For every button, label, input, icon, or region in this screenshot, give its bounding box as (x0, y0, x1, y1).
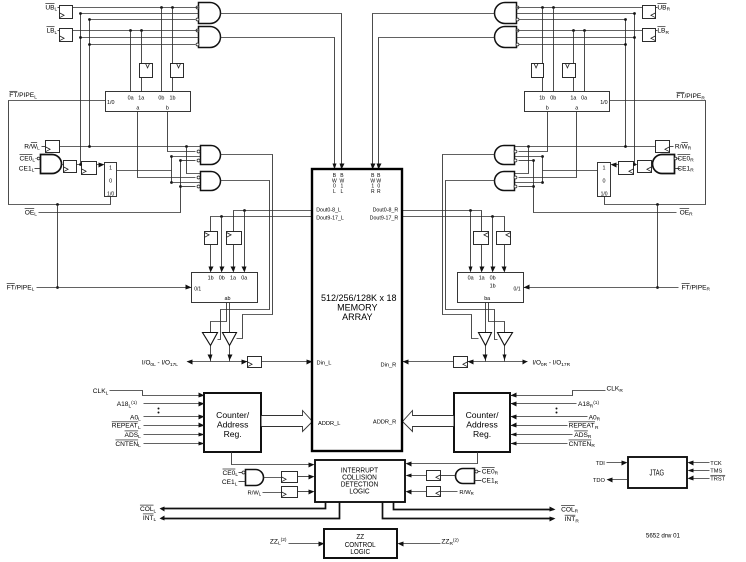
arrowhead INT_R (550, 517, 556, 522)
latch V2R (532, 64, 544, 78)
wire Dout0-8_L (234, 211, 313, 232)
overbar OE_L (25, 208, 35, 210)
svg-text:0: 0 (109, 179, 112, 185)
wire FT/PIPER top rail (605, 101, 706, 205)
junction UBR line branch 1 (552, 6, 555, 9)
block Counter/Address Reg (L) (204, 393, 261, 452)
wire R/W-L label to latch (42, 146, 46, 148)
junction select to G3R (541, 155, 544, 158)
svg-text:R/W: R/W (24, 143, 38, 150)
junction R/WL to top gates (88, 145, 91, 148)
wire G1L middle input (81, 13, 199, 15)
flip-flop UBL input cell (60, 6, 73, 19)
wire Dout9-17_L (211, 217, 313, 232)
arrowhead into select box L (99, 163, 105, 168)
arrowhead TDO (607, 478, 613, 483)
wire Dout9-17_R (403, 217, 505, 232)
wire TDO (610, 479, 628, 481)
svg-text:(1): (1) (593, 400, 599, 406)
wire ADSL (144, 434, 205, 436)
wire ZZ_R input (400, 543, 441, 545)
svg-text:0a: 0a (128, 95, 134, 101)
junction OER top corner (532, 159, 535, 162)
svg-text:ARRAY: ARRAY (342, 312, 372, 322)
wire Dout0-8_L direct to mux 0a (244, 211, 246, 271)
wire UBL cell to G1L top input (73, 7, 199, 9)
latch CE pipeline 1 R (638, 161, 652, 173)
svg-text:R/W: R/W (459, 490, 471, 496)
svg-text:R: R (595, 425, 599, 431)
latch R/W-L input (46, 141, 60, 153)
svg-text:ADS: ADS (574, 432, 588, 439)
svg-text:R: R (371, 189, 375, 195)
buffer driver2 L (tri-state) (223, 333, 237, 346)
svg-text:R: R (667, 7, 671, 13)
junction enable/G1L mid (79, 12, 82, 15)
svg-text:CE1: CE1 (222, 479, 235, 486)
overbar OE_R (680, 208, 690, 210)
svg-text:TDO: TDO (593, 478, 606, 484)
svg-text:TCK: TCK (710, 461, 722, 467)
svg-text:R: R (707, 287, 711, 293)
svg-text:L: L (34, 95, 37, 101)
arrowhead R/W R to interrupt (406, 490, 412, 495)
bus arrow ADDR_R (403, 411, 454, 432)
arrowhead 1b input L (209, 267, 214, 273)
wire CLKL (110, 391, 205, 396)
wire R/WR vertical to G4R input1 (514, 147, 529, 174)
junction FT/PIPER lower line (656, 286, 659, 289)
arrowhead BW into memory top (L0) (333, 164, 337, 170)
wire mux b output to G3R (519, 112, 548, 152)
wire select box L output (117, 170, 172, 172)
wire R/W-R latch to G3R input1 (514, 146, 656, 148)
ellipsis dot1 L (158, 408, 160, 410)
arrowhead ADSL (199, 433, 205, 437)
and-gate CE bottom L (bold) (246, 470, 264, 486)
mux byte-write select box (R) (525, 92, 610, 112)
junction rw/G2L (88, 43, 91, 46)
wire FT/PIPEL top rail (9, 101, 111, 205)
bubble G3L input4 (197, 159, 200, 162)
junction LBL line branch 1 (129, 29, 132, 32)
svg-text:REPEAT: REPEAT (112, 423, 138, 430)
svg-text:0: 0 (603, 179, 606, 185)
bubble G4R input2 (514, 176, 517, 179)
svg-text:COL: COL (561, 506, 575, 513)
junction OEL top corner (179, 159, 182, 162)
wire enable vertical to G1R/G2R middle inputs (634, 14, 636, 165)
wire G1R output to memory BW (373, 14, 495, 167)
wire LBL through V-latch to mux 1a (141, 31, 143, 92)
svg-text:FT/PIPE: FT/PIPE (676, 93, 702, 100)
svg-text:CE0: CE0 (222, 470, 235, 477)
wire CE1R bottom label (475, 480, 482, 482)
arrowhead CE R to interrupt (406, 474, 412, 478)
svg-text:L: L (55, 7, 58, 13)
junction LBL line branch 2 (140, 29, 143, 32)
junction Dout0-8_L branch (243, 209, 246, 212)
wire R/W-L latch to G3L input1 (60, 146, 201, 148)
svg-text:R: R (495, 471, 499, 477)
wire CE gate R to latches (614, 164, 653, 166)
junction R/WR to top gates (624, 145, 627, 148)
svg-text:1b: 1b (539, 95, 545, 101)
arrowhead into input register R (468, 360, 474, 365)
flip-flop LBR input cell (643, 29, 656, 42)
wire UBR direct to mux 0b (553, 8, 555, 92)
wire ab1 L to driver1 (211, 303, 227, 333)
junction R/WL to G4L (185, 145, 188, 148)
svg-text:L: L (32, 287, 35, 293)
wire OER to G4R input4 (519, 186, 534, 188)
svg-text:b: b (166, 106, 169, 112)
wire CE latch L to interrupt (298, 476, 313, 478)
svg-text:1/0: 1/0 (107, 100, 115, 106)
wire G2L bottom input (90, 44, 196, 46)
bubble G2L top input (196, 29, 199, 32)
wire counter R to interrupt logic (408, 452, 478, 464)
wire FT/PIPER rail down to lower line (657, 205, 659, 288)
register I/O input R (454, 357, 468, 368)
junction enable/G2L mid (79, 36, 82, 39)
wire ADSR (511, 434, 573, 436)
wire driver2 R to I/O bus (485, 346, 487, 362)
wire pipeline B R to mux 1a (481, 245, 483, 271)
svg-text:0a: 0a (581, 95, 587, 101)
arrowhead ZZ_R (398, 542, 404, 547)
bubble G2L bottom input (196, 43, 199, 46)
wire ab2 L to driver2 (229, 303, 231, 333)
svg-text:Dout0-8_L: Dout0-8_L (316, 207, 341, 213)
JTAG block (628, 457, 687, 488)
bubble G1R bottom input (516, 18, 519, 21)
svg-text:L: L (154, 508, 157, 514)
latch R/W bottom R (427, 487, 441, 497)
svg-text:L: L (138, 443, 141, 449)
svg-text:TRST: TRST (710, 477, 725, 483)
latch R/W-R input (656, 141, 670, 153)
block Counter/Address Reg (R) (454, 393, 510, 452)
and-gate G2L (byte-write lower) (199, 27, 221, 48)
wire CNTENR (511, 443, 568, 445)
wire LBL direct to mux 0a (130, 31, 132, 92)
junction OEL to G4L (179, 185, 182, 188)
wire COL_R output (bold) (394, 503, 554, 510)
overbar LB_R (657, 26, 665, 28)
svg-text:R: R (377, 189, 381, 195)
svg-text:0/1: 0/1 (194, 286, 201, 292)
arrowhead INT_L (160, 516, 165, 521)
svg-text:R: R (619, 388, 623, 394)
and-gate G2R (byte-write lower) (495, 27, 517, 48)
bubble G3R input4 (514, 159, 517, 162)
wire ab2 R to driver2 (485, 303, 487, 333)
junction Dout9-17_L branch (220, 215, 223, 218)
arrowhead CLKR (511, 393, 517, 398)
svg-text:5652 drw 01: 5652 drw 01 (646, 532, 681, 539)
junction CE pipeline to top gates R (633, 163, 636, 166)
arrowhead Din_L (307, 360, 313, 365)
wire pipeline B L to mux 1a (233, 245, 235, 271)
wire LB_L label dash (58, 30, 60, 32)
svg-text:L: L (341, 189, 344, 195)
wire select vertical L (171, 157, 173, 183)
svg-text:CLK: CLK (93, 388, 106, 395)
wire CE gate to latch bottom R (441, 475, 456, 477)
svg-text:CE1: CE1 (19, 165, 32, 172)
wire OEL to G3L input4 (181, 160, 196, 162)
overbar INT_R (565, 514, 576, 516)
output mux box 0/1 (R) (458, 273, 524, 303)
overbar COL_L (140, 504, 154, 506)
svg-text:L: L (138, 425, 141, 431)
ellipsis dot2 L (158, 412, 160, 414)
arrowhead A0R (511, 415, 517, 420)
ellipsis dot2 R (556, 412, 558, 414)
wire mux a output to G4R (519, 112, 577, 178)
wire LBR cell to G2R top input (517, 30, 643, 32)
wire CLKR (511, 391, 606, 396)
wire LBR through V-latch to mux 1a (573, 31, 575, 92)
svg-text:(1): (1) (131, 400, 137, 406)
and-gate G4L (output enable b) (201, 172, 221, 191)
wire input register L to Din (262, 361, 313, 363)
latch CE pipeline 2 R (619, 162, 634, 175)
arrowhead COL_L (160, 507, 165, 512)
svg-text:L: L (138, 434, 141, 440)
svg-text:R: R (690, 168, 694, 174)
overbar FT of FT/PIPE_L top (9, 90, 17, 92)
bubble CE0R input (674, 157, 677, 160)
bubble G1R top input (516, 6, 519, 9)
and-gate CE bottom R (bold) (456, 469, 475, 484)
wire Dout9-17_L direct to mux 0b (221, 217, 223, 271)
arrowhead TDI (622, 461, 628, 466)
svg-text:ZZ: ZZ (356, 534, 364, 541)
svg-text:1: 1 (109, 165, 112, 171)
svg-text:A18: A18 (578, 401, 590, 408)
wire UBL direct to mux 0b (161, 8, 163, 92)
bubble CE0R bottom (475, 470, 478, 473)
wire FT/PIPER lower line to output mux (521, 287, 679, 289)
wire select vertical R (542, 157, 544, 183)
select box 1/0 (R) (598, 163, 611, 197)
junction CE pipeline to top gates L (79, 163, 82, 166)
arrowhead COL_R (550, 507, 556, 512)
svg-text:Reg.: Reg. (473, 429, 491, 439)
overbar INT_L (143, 513, 154, 515)
wire ZZ_L input (289, 543, 323, 545)
bubble G3R input2 (514, 150, 517, 153)
svg-text:CE1: CE1 (677, 165, 690, 172)
bubble G4L input2 (197, 176, 200, 179)
svg-text:LOGIC: LOGIC (350, 549, 370, 556)
ellipsis dot1 R (556, 408, 558, 410)
wire OER to G3R input4 (519, 160, 534, 162)
wire CE1R label to gate (675, 168, 681, 170)
svg-text:ADDR_L: ADDR_L (318, 421, 340, 427)
arrowhead driver2 L (228, 355, 233, 361)
overbar COL_R (561, 505, 575, 507)
arrowhead TCK (688, 461, 694, 466)
wire CNTENL (144, 443, 205, 445)
wire FT/PIPEL lower line to output mux (37, 287, 195, 289)
svg-text:L: L (235, 481, 238, 487)
svg-text:JTAG: JTAG (650, 467, 665, 477)
svg-text:L: L (32, 168, 35, 174)
wire TDI (607, 462, 626, 464)
junction OER to G4R (532, 185, 535, 188)
wire select to G3R input3 (514, 156, 543, 158)
wire G2L middle input (81, 37, 199, 39)
wire driver1 R to I/O bus (504, 346, 506, 362)
svg-text:LOGIC: LOGIC (349, 488, 369, 495)
arrowhead A0L (199, 415, 205, 420)
bubble G1L top input (196, 6, 199, 9)
buffer driver1 L (tri-state) (203, 333, 218, 346)
wire G2R bottom input (519, 44, 626, 46)
wire TCK (690, 462, 710, 464)
wire mux a output to G4L (138, 112, 196, 178)
wire select to G4R input3 (514, 182, 543, 184)
junction LBR line branch 2 (572, 29, 575, 32)
arrowhead TMS (688, 469, 694, 473)
register pipeline A L (205, 232, 218, 245)
arrowhead CE L to interrupt (309, 475, 315, 480)
svg-text:INT: INT (565, 516, 576, 523)
arrowhead R/W L to interrupt (309, 490, 315, 495)
overbar UB_L (45, 2, 54, 4)
wire UB_R label dash (656, 7, 658, 9)
arrowhead BW into memory top (R0) (377, 164, 382, 170)
wire G1L bottom input (90, 19, 196, 21)
wire r/w vertical to G1R/G2R bottom inputs (625, 20, 627, 147)
svg-text:1: 1 (603, 165, 606, 171)
junction select to G3L (170, 155, 173, 158)
register pipeline B R (474, 232, 489, 245)
latch V1R (563, 64, 576, 78)
overbar W of R/W_R top (682, 142, 688, 144)
wire select to G4L input3 (172, 182, 201, 184)
overbar CE0_R top (677, 154, 690, 156)
svg-text:ZZ: ZZ (441, 539, 449, 546)
overbar CNTEN_L (115, 439, 138, 441)
svg-text:L: L (333, 189, 336, 195)
svg-text:512/256/128K x 18: 512/256/128K x 18 (321, 293, 397, 303)
arrowhead CNTENR (511, 442, 517, 446)
bubble G1L bottom input (196, 18, 199, 21)
register I/O input L (248, 357, 262, 368)
arrowhead BW into memory top (R1) (371, 164, 376, 170)
wire select box R output (543, 170, 598, 172)
svg-text:L: L (55, 30, 58, 36)
arrowhead 1b input R (502, 267, 507, 273)
wire CE1L label to gate (35, 168, 41, 170)
wire UB_L label dash (58, 7, 60, 9)
wire G2R middle input (517, 37, 635, 39)
latch V1L (140, 64, 153, 78)
overbar TRST (710, 474, 725, 476)
overbar CE0_L bottom (222, 468, 235, 470)
svg-text:1b: 1b (490, 283, 496, 289)
svg-text:L: L (106, 390, 109, 396)
svg-text:R: R (575, 518, 579, 524)
arrowhead driver1 R (503, 355, 507, 361)
arrowhead I/O external R (523, 360, 528, 365)
svg-text:Address: Address (466, 420, 498, 430)
register pipeline B L (227, 232, 242, 245)
svg-text:R: R (591, 443, 595, 449)
junction UBR line branch 2 (541, 6, 544, 9)
svg-text:0b: 0b (158, 95, 164, 101)
svg-text:L: L (138, 417, 141, 423)
bus arrow ADDR_L (262, 411, 313, 432)
svg-text:1/0: 1/0 (107, 192, 114, 198)
wire TMS (690, 470, 710, 472)
svg-text:A18: A18 (117, 401, 129, 408)
svg-text:Dout9-17_L: Dout9-17_L (316, 215, 344, 221)
overbar REPEAT_L (112, 421, 138, 423)
output mux box 0/1 (L) (192, 273, 258, 303)
wire INT_L output (bold) (162, 503, 340, 519)
wire CE latch R to interrupt (408, 475, 427, 477)
svg-text:R: R (597, 417, 601, 423)
overbar CE0_L top (19, 154, 32, 156)
svg-text:Counter/: Counter/ (466, 410, 500, 420)
wire G2R output to memory BW (379, 38, 495, 167)
wire R/W bottom label R (441, 491, 458, 493)
and-gate CEL (chip enable, bold) (41, 155, 62, 174)
latch CE pipeline 1 L (64, 161, 77, 173)
overbar FT of FT/PIPE_R top (676, 91, 684, 93)
wire pipeline A L to mux 1b (210, 245, 212, 271)
junction FT/PIPEL rail branch (56, 203, 59, 206)
svg-text:1b: 1b (208, 276, 214, 282)
svg-text:REPEAT: REPEAT (569, 423, 595, 430)
wire R/W latch R to interrupt (408, 491, 427, 493)
wire UBL through V-latch to mux 1b (172, 8, 174, 92)
wire G4R output to driver1 enable (446, 181, 498, 340)
svg-text:Counter/: Counter/ (216, 410, 250, 420)
svg-text:R: R (575, 509, 579, 515)
overbar UB_R (657, 2, 666, 4)
wire select to G3L input3 (172, 156, 201, 158)
arrowhead counter R to interrupt (406, 462, 412, 467)
wire CE gate to latch bottom L (264, 477, 282, 479)
junction LBR line branch 1 (583, 29, 586, 32)
wire driver1 L to I/O bus (210, 346, 212, 362)
arrowhead FT/PIPEL into output mux (186, 285, 192, 290)
wire enable vertical to G1L/G2L middle inputs (80, 14, 82, 165)
junction rw/G1R (624, 18, 627, 21)
bubble G4L input4 (197, 185, 200, 188)
wire G2L output to memory BW (221, 38, 335, 167)
wire R/W bottom label L (263, 492, 282, 494)
svg-text:R: R (665, 30, 669, 36)
svg-text:0b: 0b (550, 95, 556, 101)
svg-text:CNTEN: CNTEN (115, 441, 138, 448)
svg-text:a: a (136, 106, 139, 112)
svg-text:TMS: TMS (710, 469, 722, 475)
wire OEL line (39, 161, 181, 213)
arrowhead 1a input L (231, 267, 236, 273)
junction select to G4R (541, 181, 544, 184)
and-gate G1R (byte-write upper) (495, 3, 517, 24)
arrowhead into select box R (611, 163, 617, 168)
junction enable/G2R mid (633, 36, 636, 39)
bubble G2R top input (516, 29, 519, 32)
